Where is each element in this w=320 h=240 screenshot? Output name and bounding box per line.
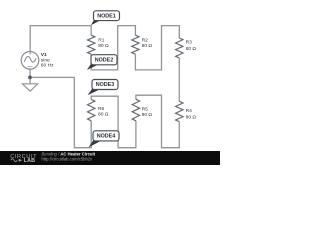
svg-text:NODE4: NODE4 [97,134,116,140]
resistor R2 [132,35,139,54]
label R6 value 80 Ω [98,106,109,117]
node NODE2 [87,55,117,70]
svg-text:NODE1: NODE1 [97,13,116,19]
svg-text:R3: R3 [186,40,193,46]
svg-text:V1: V1 [41,52,47,58]
svg-text:R4: R4 [186,108,193,114]
wire R2 bottom to R3 top [135,26,179,70]
resistor R6 [87,99,94,120]
svg-text:80 Ω: 80 Ω [98,43,109,49]
junction dot at V1 bottom node [28,76,32,80]
node NODE1 [91,11,120,25]
footer logo wave+LAB [11,159,17,162]
node NODE4 [89,131,120,148]
footer bar [0,151,220,165]
label R1 value 80 Ω [98,37,109,49]
svg-text:R6: R6 [98,106,105,112]
label R4 value 80 Ω [186,108,197,120]
resistor R4 [176,101,183,121]
resistor R5 [132,99,139,121]
svg-text:R1: R1 [98,37,105,43]
label R2 value 80 Ω [142,37,153,49]
svg-text:http://circuitlab.com/c5bh2v: http://circuitlab.com/c5bh2v [42,156,94,161]
svg-text:80 Ω: 80 Ω [186,115,197,121]
ground [23,84,38,91]
label R3 value 80 Ω [186,40,197,52]
wire R3 bottom to R4 top [178,58,180,101]
svg-text:80 Ω: 80 Ω [186,46,197,52]
wire R1 bottom to vertical riser [91,26,135,70]
voltage source V1 [21,52,39,70]
svg-text:LAB: LAB [24,158,36,164]
svg-text:NODE2: NODE2 [95,58,114,64]
resistor R1 [87,35,94,54]
svg-text:80 Ω: 80 Ω [142,112,153,118]
label V1 name and value: sine 60 Hz [41,52,54,69]
svg-text:60 Hz: 60 Hz [41,63,54,69]
wire R4 bottom to R5 top [136,95,179,148]
wire V1 bottom lead [29,69,31,84]
node NODE3 [88,80,118,96]
svg-text:80 Ω: 80 Ω [142,43,153,49]
svg-text:NODE3: NODE3 [96,82,115,88]
wire R6 bottom to ground rail [30,77,91,147]
label R5 value 80 Ω [142,107,153,118]
svg-text:80 Ω: 80 Ω [98,111,109,117]
resistor R3 [176,38,183,58]
svg-text:sine: sine [41,58,50,64]
wire top rail V1 to R1 [30,26,91,52]
svg-text:R5: R5 [142,107,149,113]
wire R5 bottom to R6 top [91,96,136,148]
svg-text:R2: R2 [142,37,149,43]
